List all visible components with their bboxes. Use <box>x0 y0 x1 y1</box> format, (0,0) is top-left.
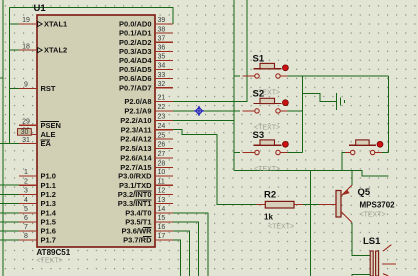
U1 pin 26 (P2.5/A13) <box>120 142 173 153</box>
svg-text:R2: R2 <box>264 190 276 201</box>
wire P2.2 to vertical x=233.8 <box>173 119 234 121</box>
svg-text:P2.5/A13: P2.5/A13 <box>120 144 151 153</box>
wire top rail y=76 to right vertical <box>303 75 389 77</box>
switch S1 push button <box>243 63 289 78</box>
U1 pin 17 (P3.7/RD) <box>123 233 173 244</box>
wire vertical x=233.8 from top edge down to bottom rail <box>233 0 235 171</box>
wire P2.1 to S2 left <box>173 110 240 112</box>
node origin marker on P2.1 wire <box>194 106 204 116</box>
svg-text:3: 3 <box>24 188 28 195</box>
svg-text:ALE: ALE <box>41 130 56 139</box>
wire S2 right to column B <box>286 110 303 112</box>
svg-text:<TEXT>: <TEXT> <box>360 212 386 219</box>
svg-text:P3.6/WR: P3.6/WR <box>121 227 152 236</box>
U1 pin 13 (P3.3/INT1) <box>118 197 173 208</box>
svg-text:P1.6: P1.6 <box>41 227 56 236</box>
svg-text:36: 36 <box>158 45 166 52</box>
U1 pin 16 (P3.6/WR) <box>121 224 173 235</box>
U1 pin 25 (P2.4/A12) <box>120 132 173 143</box>
svg-text:P3.4/T0: P3.4/T0 <box>125 208 151 217</box>
U1 pin 8 (P1.7) <box>19 233 56 244</box>
wire top rail from bus to pin 39 <box>10 8 174 25</box>
wire to P1.1 from left edge <box>0 184 20 186</box>
svg-text:RST: RST <box>41 84 56 93</box>
wire S4 left down to rail <box>342 153 345 171</box>
svg-text:P0.3/AD3: P0.3/AD3 <box>119 47 152 56</box>
U1 pin 9 (RST) <box>19 82 56 93</box>
svg-text:P2.2/A10: P2.2/A10 <box>120 116 151 125</box>
svg-text:<TEXT>: <TEXT> <box>254 166 280 173</box>
U1 pin 35 (P0.4/AD4) <box>119 54 173 65</box>
svg-text:21: 21 <box>158 95 166 102</box>
svg-text:P0.4/AD4: P0.4/AD4 <box>119 56 152 65</box>
U1 pin 37 (P0.2/AD2) <box>119 35 173 46</box>
switch S2 push button <box>243 98 289 113</box>
U1 pin 24 (P2.3/A11) <box>121 123 174 134</box>
svg-text:4: 4 <box>24 197 28 204</box>
U1 pin 38 (P0.1/AD1) <box>119 26 173 37</box>
svg-text:23: 23 <box>158 114 166 121</box>
svg-text:LS1: LS1 <box>363 236 381 247</box>
svg-text:26: 26 <box>158 142 166 149</box>
svg-text:P2.1/A9: P2.1/A9 <box>124 107 151 116</box>
svg-text:<TEXT>: <TEXT> <box>37 258 63 265</box>
wire column B x=302.7 (S1/S2/S3 right) <box>302 76 304 153</box>
U1 pin 39 (P0.0/AD0) <box>119 17 173 28</box>
svg-text:19: 19 <box>22 17 30 24</box>
wire R2 to Q5 base (green mid segment) <box>303 204 319 206</box>
wire to EA from left edge <box>0 143 20 145</box>
svg-text:22: 22 <box>158 104 166 111</box>
wire to P1.5 from left edge <box>0 221 20 223</box>
U1 pin 14 (P3.4/T0) <box>125 206 173 217</box>
wire to P1.6 from left edge <box>0 230 20 232</box>
switch S4 push button (unlabeled) <box>345 140 383 155</box>
wire S3 right to column B <box>286 152 303 154</box>
transistor Q5 body (MPS3702 PNP) <box>336 185 352 223</box>
wire stub to left edge at y=78 <box>0 77 3 79</box>
wire bottom rail y=170.5 with step <box>234 171 388 177</box>
wire S3 left to vertical <box>234 152 240 154</box>
speaker LS1 <box>370 245 396 276</box>
svg-text:Q5: Q5 <box>358 187 371 198</box>
wire P2.3 to R2 via staircase <box>173 130 256 205</box>
svg-text:P3.1/TXD: P3.1/TXD <box>119 181 152 190</box>
U1 pin 31 (EA) <box>19 137 52 148</box>
svg-text:29: 29 <box>22 118 30 125</box>
svg-text:39: 39 <box>158 17 166 24</box>
U1 pin 3 (P1.2) <box>19 188 56 199</box>
U1 pin 12 (P3.2/INT0) <box>118 188 173 199</box>
U1 pin 10 (P3.0/RXD) <box>118 169 173 180</box>
svg-text:31: 31 <box>22 137 30 144</box>
resistor R2 body <box>265 201 294 208</box>
svg-text:P3.7/RD: P3.7/RD <box>123 236 152 245</box>
svg-text:AT89C51: AT89C51 <box>37 248 71 257</box>
svg-text:12: 12 <box>158 188 166 195</box>
svg-text:34: 34 <box>158 63 166 70</box>
wire vertical x=310.7 rail to bottom edge <box>310 171 312 276</box>
svg-text:P2.4/A12: P2.4/A12 <box>120 135 151 144</box>
svg-text:30: 30 <box>21 129 29 136</box>
U1 pin 28 (P2.7/A15) <box>120 161 173 172</box>
svg-text:1k: 1k <box>264 213 273 222</box>
U1 pin 18 (XTAL2) <box>19 43 67 54</box>
wire to P1.2 from left edge <box>0 193 20 195</box>
U1 pin 34 (P0.5/AD5) <box>119 63 173 74</box>
svg-text:PSEN: PSEN <box>41 121 61 130</box>
wire to P1.7 from left edge <box>0 239 20 241</box>
U1 pin 21 (P2.0/A8) <box>124 95 173 106</box>
svg-text:5: 5 <box>24 206 28 213</box>
wire vertical bus x=9.7 (XTAL/RST/EA column) <box>9 8 11 144</box>
svg-text:35: 35 <box>158 54 166 61</box>
U1 pin 4 (P1.3) <box>19 197 56 208</box>
svg-text:EA: EA <box>41 139 52 148</box>
ground symbol <box>337 93 345 110</box>
svg-text:P2.6/A14: P2.6/A14 <box>120 154 152 163</box>
svg-text:P1.5: P1.5 <box>41 218 56 227</box>
svg-text:P1.1: P1.1 <box>41 181 56 190</box>
svg-text:28: 28 <box>158 161 166 168</box>
svg-text:P0.7/AD7: P0.7/AD7 <box>119 83 152 92</box>
svg-text:P0.0/AD0: P0.0/AD0 <box>119 20 152 29</box>
svg-text:P1.0: P1.0 <box>41 172 56 181</box>
svg-text:P0.6/AD6: P0.6/AD6 <box>119 74 152 83</box>
svg-text:P3.3/INT1: P3.3/INT1 <box>118 199 152 208</box>
svg-text:P2.0/A8: P2.0/A8 <box>124 97 151 106</box>
U1 pin 6 (P1.5) <box>19 215 56 226</box>
wire Q5 emitter up to rail <box>351 171 353 186</box>
wire S1 right to column B <box>286 75 303 77</box>
svg-text:P1.4: P1.4 <box>41 208 57 217</box>
U1 pin 15 (P3.5/T1) <box>125 215 173 226</box>
svg-text:11: 11 <box>158 178 165 185</box>
wire P3.5 down to bottom edge <box>173 222 199 276</box>
wire S1 left to vertical <box>234 75 240 77</box>
svg-text:16: 16 <box>158 224 166 231</box>
svg-text:P2.7/A15: P2.7/A15 <box>120 163 151 172</box>
U1 pin 7 (P1.6) <box>19 224 56 235</box>
svg-text:P1.2: P1.2 <box>41 190 56 199</box>
svg-text:37: 37 <box>158 35 166 42</box>
svg-text:15: 15 <box>158 215 166 222</box>
svg-text:18: 18 <box>22 43 30 50</box>
U1 pin 19 (XTAL1) <box>19 17 67 28</box>
U1 pin 30 selection box <box>18 129 32 136</box>
svg-text:MPS3702: MPS3702 <box>360 200 396 209</box>
svg-text:<TEXT>: <TEXT> <box>268 224 294 231</box>
U1 pin 27 (P2.6/A14) <box>120 151 173 162</box>
svg-text:S2: S2 <box>253 88 265 99</box>
svg-text:27: 27 <box>158 151 166 158</box>
svg-text:24: 24 <box>158 123 166 130</box>
U1 pin 11 (P3.1/TXD) <box>119 178 173 189</box>
U1 pin 22 (P2.1/A9) <box>124 104 173 115</box>
U1 pin 36 (P0.3/AD3) <box>119 45 173 56</box>
wire to P1.4 from left edge <box>0 212 20 214</box>
svg-text:6: 6 <box>24 215 28 222</box>
svg-text:2: 2 <box>24 178 28 185</box>
svg-text:33: 33 <box>158 72 166 79</box>
svg-text:P1.7: P1.7 <box>41 236 56 245</box>
svg-text:P3.2/INT0: P3.2/INT0 <box>118 190 152 199</box>
wire LS1 bottom pin <box>352 274 370 276</box>
svg-text:P0.2/AD2: P0.2/AD2 <box>119 38 152 47</box>
svg-text:7: 7 <box>24 224 28 231</box>
svg-text:P0.1/AD1: P0.1/AD1 <box>119 29 152 38</box>
svg-text:P3.0/RXD: P3.0/RXD <box>118 172 152 181</box>
svg-text:S1: S1 <box>253 54 265 65</box>
wire P2.0 to vertical x=247 <box>173 0 247 102</box>
wire P3.7 down to bottom edge <box>173 240 180 276</box>
svg-text:32: 32 <box>158 81 166 88</box>
wire right vertical x=388.6 down to button row <box>388 76 390 153</box>
U1 pin 32 (P0.7/AD7) <box>119 81 173 92</box>
wire ground branch <box>303 94 337 102</box>
wire Q5 collector down to LS1 <box>352 223 370 256</box>
wire P3.4 down to bottom edge <box>173 213 208 276</box>
svg-text:10: 10 <box>158 169 166 176</box>
transistor Q5 base stub <box>319 204 336 206</box>
svg-text:U1: U1 <box>34 3 47 14</box>
wire S4 right to vertical <box>380 152 389 154</box>
U1 pin 2 (P1.1) <box>19 178 56 189</box>
svg-text:1: 1 <box>24 169 28 176</box>
U1 pin 30 (ALE) <box>19 128 56 139</box>
IC U1 body (AT89C51 microcontroller) <box>37 15 155 247</box>
svg-text:38: 38 <box>158 26 166 33</box>
svg-text:25: 25 <box>158 132 166 139</box>
svg-text:XTAL2: XTAL2 <box>44 46 67 55</box>
wire P3.6 down to bottom edge <box>173 231 189 276</box>
svg-text:14: 14 <box>158 206 166 213</box>
svg-text:P0.5/AD5: P0.5/AD5 <box>119 65 152 74</box>
U1 pin 1 (P1.0) <box>19 169 56 180</box>
U1 pin 5 (P1.4) <box>19 206 57 217</box>
svg-text:13: 13 <box>158 197 166 204</box>
svg-text:P1.3: P1.3 <box>41 199 56 208</box>
svg-text:17: 17 <box>158 233 166 240</box>
svg-text:P2.3/A11: P2.3/A11 <box>121 125 152 134</box>
wire to P1.3 from left edge <box>0 203 20 205</box>
U1 pin 29 (PSEN) <box>19 118 61 129</box>
wire to RST <box>10 87 20 89</box>
svg-text:P3.5/T1: P3.5/T1 <box>125 218 151 227</box>
resistor R2 leads <box>257 204 266 206</box>
svg-text:8: 8 <box>24 233 28 240</box>
svg-text:9: 9 <box>24 82 28 89</box>
U1 pin 23 (P2.2/A10) <box>120 114 173 125</box>
switch S3 push button <box>243 140 289 155</box>
svg-text:XTAL1: XTAL1 <box>44 20 67 29</box>
wire left-edge vertical bus <box>2 0 4 276</box>
U1 pin 33 (P0.6/AD6) <box>119 72 173 83</box>
wire to XTAL2 <box>10 49 20 51</box>
svg-text:S3: S3 <box>253 130 265 141</box>
wire to XTAL1 <box>10 23 20 25</box>
